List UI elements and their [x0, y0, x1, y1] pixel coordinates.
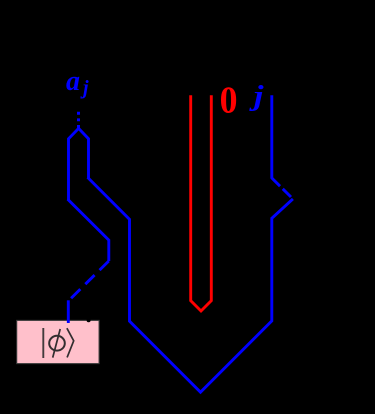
label |phi> : phi stem	[53, 329, 61, 358]
label |phi> : rangle	[67, 328, 74, 357]
wire: dashed diagonal toward |phi> box	[68, 261, 109, 301]
wire: main loop right leg down, bottom V, up right side	[88, 177, 293, 392]
wire: right vertical up to top	[270, 95, 273, 179]
wire: red narrow U (|0> register)	[191, 95, 212, 311]
label |phi> : phi loop	[49, 336, 65, 351]
notch in box top edge	[87, 318, 91, 323]
box |phi> state	[17, 320, 99, 363]
wire: dashed upper diagonal of right zigzag	[272, 178, 293, 199]
svg-text:0: 0	[220, 79, 238, 121]
label |phi> : bar	[42, 328, 44, 358]
wire: dotted index stub above tent	[77, 112, 80, 128]
svg-text:a: a	[66, 66, 80, 97]
wire: tent (two legs from apex)	[69, 128, 89, 200]
wire: left leg diagonal down to shoulder	[68, 199, 109, 261]
label a_j	[66, 66, 89, 99]
wire: stub into |phi> box	[67, 300, 70, 323]
